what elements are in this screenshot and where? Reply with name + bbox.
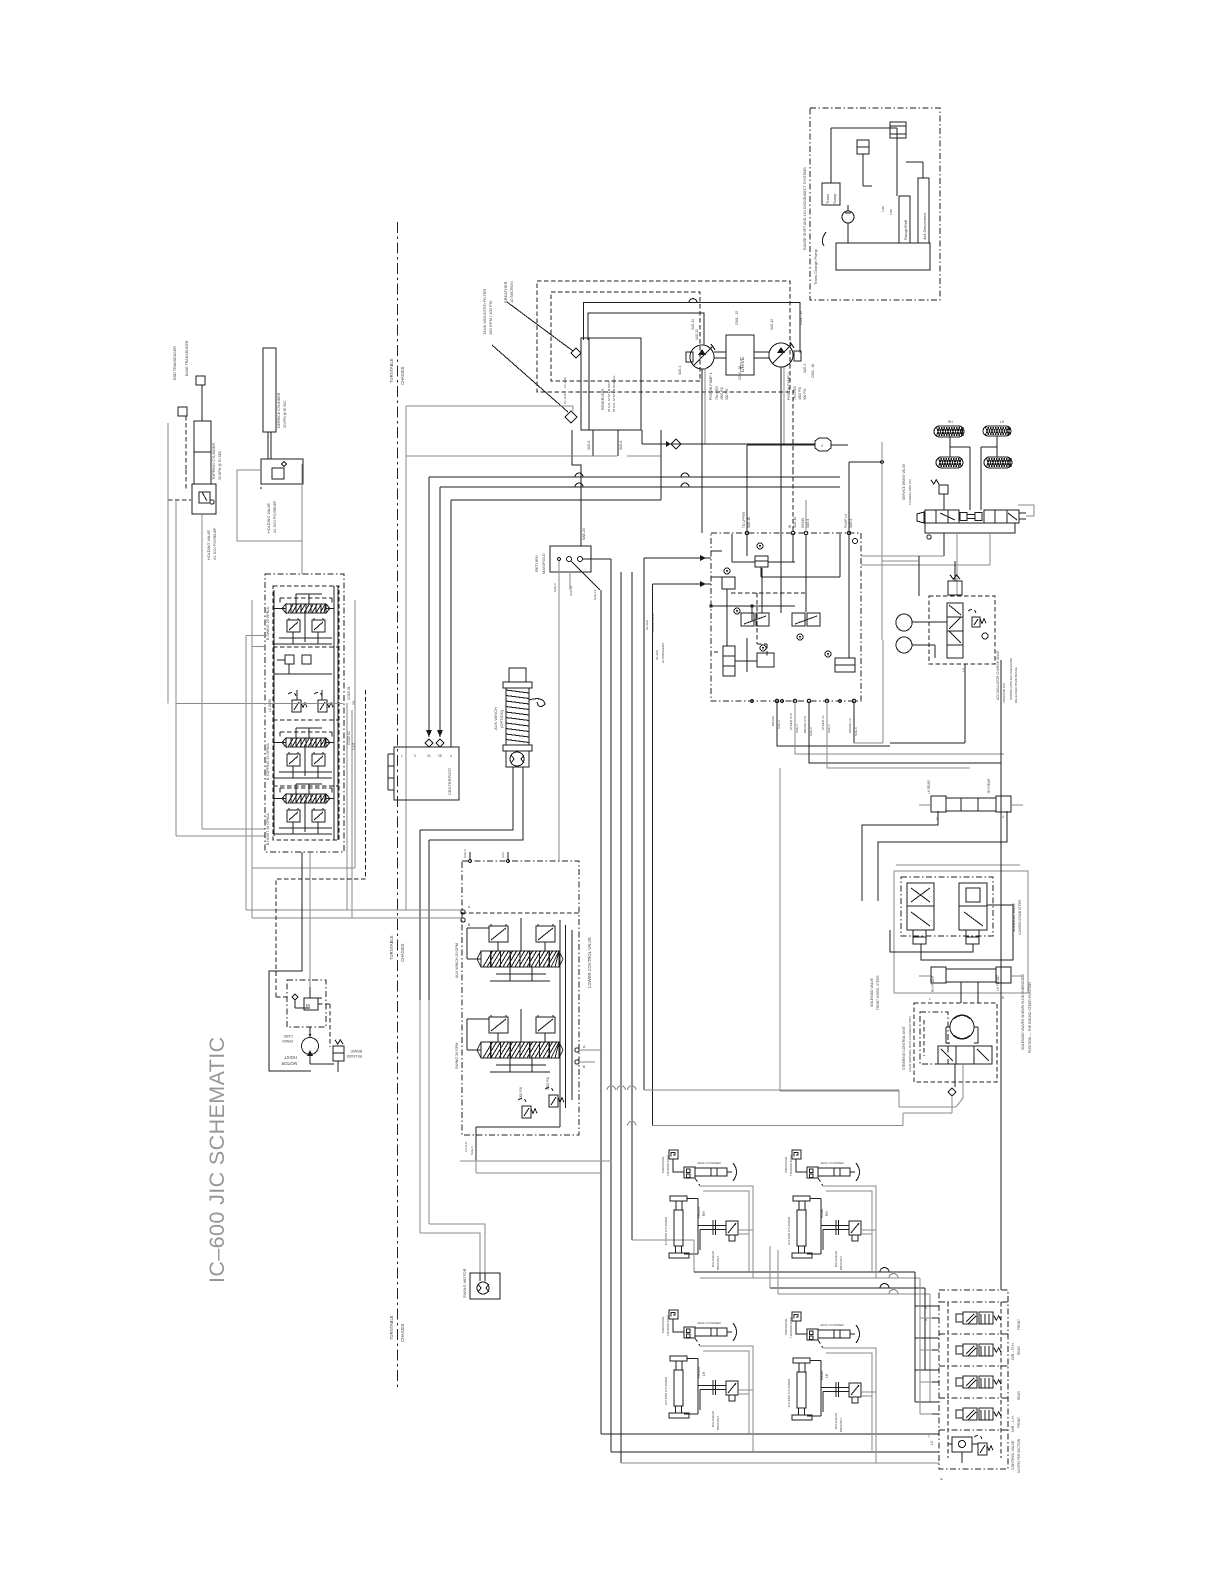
svg-text:4:1 3000 PSI RELIEF: 4:1 3000 PSI RELIEF (213, 528, 217, 560)
svg-text:RETURN: RETURN (534, 555, 539, 572)
svg-text:CHASSIS: CHASSIS (400, 1323, 405, 1342)
svg-text:91-2HS: 91-2HS (645, 620, 649, 630)
svg-text:FRONT WHEEL STEER: FRONT WHEEL STEER (876, 975, 880, 1010)
svg-text:BREATHER: BREATHER (503, 281, 508, 303)
svg-text:FRONT: FRONT (1017, 1319, 1021, 1330)
svg-text:RH: RH (825, 1211, 829, 1216)
svg-text:ROD TRANSDUCER: ROD TRANSDUCER (173, 346, 177, 380)
svg-text:28: 28 (438, 754, 442, 758)
svg-text:BRACKET: BRACKET (839, 1256, 843, 1270)
svg-text:EXTEND CYLINDER: EXTEND CYLINDER (664, 1376, 668, 1405)
svg-text:4500 PSI: 4500 PSI (720, 387, 724, 400)
svg-text:TRANSDUCER: TRANSDUCER (666, 1154, 670, 1176)
svg-text:B: B (925, 1318, 927, 1322)
svg-text:C061 - 32: C061 - 32 (735, 311, 739, 325)
svg-text:65 GAL SYSTEM MAX: 65 GAL SYSTEM MAX (607, 381, 611, 412)
svg-text:MOTOR: MOTOR (281, 1061, 297, 1066)
svg-text:AUX: AUX (501, 852, 505, 858)
svg-text:C062 - 16: C062 - 16 (738, 366, 742, 380)
svg-text:PRESSURE: PRESSURE (784, 1156, 788, 1173)
svg-text:JACK CYLINDER: JACK CYLINDER (820, 1161, 845, 1165)
svg-text:HOLDING VALVE: HOLDING VALVE (267, 503, 271, 533)
svg-text:STEER SYS: STEER SYS (789, 713, 793, 730)
svg-text:IC–600 JIC SCHEMATIC: IC–600 JIC SCHEMATIC (205, 1036, 229, 1283)
svg-text:75cc/REV: 75cc/REV (793, 385, 797, 400)
svg-text:1850/1250 PSI: 1850/1250 PSI (1002, 683, 1006, 703)
svg-text:LS: LS (930, 1440, 934, 1445)
svg-text:LH FRONT: LH FRONT (996, 975, 1000, 991)
svg-text:SAE-16: SAE-16 (793, 517, 797, 528)
svg-text:DRAIN: DRAIN (801, 517, 805, 528)
svg-text:SWING VALVE: SWING VALVE (651, 613, 655, 633)
svg-text:C1-2HS: C1-2HS (563, 377, 567, 388)
svg-text:O/R – R.H.: O/R – R.H. (1011, 1342, 1015, 1360)
svg-text:TOPPING CYLINDER: TOPPING CYLINDER (212, 442, 216, 480)
svg-text:BULKHEAD: BULKHEAD (834, 1412, 838, 1429)
svg-text:33 GPM @ 50 SEC: 33 GPM @ 50 SEC (218, 450, 222, 480)
svg-text:DERRICK CYLINDER: DERRICK CYLINDER (277, 392, 281, 428)
svg-text:BULKHEAD: BULKHEAD (711, 1250, 715, 1267)
svg-text:PRESSURE: PRESSURE (784, 1318, 788, 1335)
svg-text:PISTON PUMP 1: PISTON PUMP 1 (709, 372, 713, 400)
svg-text:SAE-12: SAE-12 (770, 319, 774, 330)
svg-text:PRESSURE: PRESSURE (661, 1316, 665, 1333)
svg-text:4500 PSI: 4500 PSI (798, 387, 802, 400)
svg-text:HOIST: HOIST (284, 1055, 297, 1060)
svg-text:3: 3 (414, 754, 416, 758)
svg-text:SERVICE BRAKE VALVE: SERVICE BRAKE VALVE (902, 464, 906, 500)
svg-text:91-2HS: 91-2HS (655, 650, 659, 660)
svg-text:24: 24 (427, 754, 431, 758)
svg-text:RH: RH (702, 1211, 706, 1216)
svg-text:SAE-6: SAE-6 (827, 724, 831, 733)
svg-text:(OPTION): (OPTION) (499, 709, 504, 728)
svg-text:T: T (928, 1435, 930, 1439)
svg-text:SAE-4: SAE-4 (795, 724, 799, 733)
svg-text:TURNTABLE: TURNTABLE (389, 358, 394, 383)
svg-text:1: 1 (401, 754, 403, 758)
svg-text:LS AUX: LS AUX (464, 1141, 468, 1152)
svg-text:BRAKE SYS: BRAKE SYS (803, 716, 807, 733)
svg-text:RH: RH (948, 420, 953, 424)
svg-text:A: A (925, 1306, 927, 1310)
svg-text:AUX WINCH 20 GPM: AUX WINCH 20 GPM (455, 943, 459, 978)
svg-text:LH: LH (702, 1371, 706, 1376)
svg-text:Sump: Sump (832, 193, 837, 204)
svg-text:CONTROL VALVE: CONTROL VALVE (1011, 1440, 1015, 1470)
svg-text:STEERING CONTROL UNIT: STEERING CONTROL UNIT (902, 1026, 906, 1070)
svg-text:SAE-12: SAE-12 (695, 329, 699, 340)
svg-text:SAE-6: SAE-6 (463, 849, 467, 858)
svg-text:OUTRIGGERS: OUTRIGGERS (661, 643, 665, 663)
svg-text:PUMP LS: PUMP LS (844, 514, 848, 528)
svg-text:TRANSDUCER: TRANSDUCER (789, 1154, 793, 1176)
svg-text:TANK MOUNTED FILTER: TANK MOUNTED FILTER (482, 289, 487, 335)
svg-text:TANDEM 1000 PSI: TANDEM 1000 PSI (908, 479, 912, 505)
svg-text:LH: LH (825, 1373, 829, 1378)
svg-text:RANGE SHIFT AND 4X4 DISCONNECT: RANGE SHIFT AND 4X4 DISCONNECT SYSTEMS (803, 167, 807, 250)
svg-text:LH REAR: LH REAR (927, 779, 931, 794)
svg-text:BRAKE: BRAKE (350, 1049, 362, 1053)
svg-text:10 MICRON: 10 MICRON (509, 281, 514, 303)
svg-text:PISTON PUMP 2: PISTON PUMP 2 (787, 372, 791, 400)
svg-text:POSITION — THE ROUND STEER POS: POSITION — THE ROUND STEER POSITION (1028, 981, 1032, 1053)
svg-text:LOWER CONTROL VALVE: LOWER CONTROL VALVE (587, 937, 592, 988)
svg-text:2½: 2½ (352, 700, 356, 705)
svg-text:REAR: REAR (1017, 1345, 1021, 1355)
svg-text:Low: Low (889, 208, 893, 215)
svg-text:Trans: Trans (825, 194, 830, 204)
svg-text:TRANSDUCER: TRANSDUCER (789, 1316, 793, 1338)
svg-text:SAE-6: SAE-6 (849, 519, 853, 528)
svg-text:SAE-24: SAE-24 (582, 528, 586, 540)
svg-text:LS SAE6: LS SAE6 (268, 699, 272, 712)
svg-text:BRACKET: BRACKET (716, 1256, 720, 1270)
svg-text:3000 PSI: 3000 PSI (546, 1077, 550, 1090)
svg-text:300 PSI: 300 PSI (803, 389, 807, 400)
svg-text:20 GPM @ 50 SEC: 20 GPM @ 50 SEC (283, 400, 287, 428)
svg-text:L: L (929, 997, 931, 1001)
svg-text:ACCUMULATOR CHARGE VALVE: ACCUMULATOR CHARGE VALVE (996, 650, 1000, 700)
svg-text:BULKHEAD: BULKHEAD (834, 1250, 838, 1267)
svg-text:BULKHEAD: BULKHEAD (711, 1410, 715, 1427)
svg-text:75cc/REV: 75cc/REV (715, 385, 719, 400)
svg-text:SAE-6: SAE-6 (806, 519, 810, 528)
svg-text:4: 4 (450, 754, 452, 758)
svg-text:RH FRONT: RH FRONT (931, 975, 935, 992)
svg-text:JACK CYLINDER: JACK CYLINDER (820, 1323, 845, 1327)
svg-text:Low: Low (881, 205, 885, 212)
svg-text:SAE-6: SAE-6 (777, 720, 781, 729)
svg-text:TRANSDUCER: TRANSDUCER (666, 1314, 670, 1336)
svg-text:TURNTABLE: TURNTABLE (389, 935, 394, 960)
svg-text:JACK CYLINDER: JACK CYLINDER (697, 1161, 722, 1165)
svg-text:55 GAL SYSTEM NORMAL: 55 GAL SYSTEM NORMAL (612, 375, 616, 412)
svg-text:B TOPPING 33 GPM A: B TOPPING 33 GPM A (266, 743, 270, 780)
svg-text:SAE-6: SAE-6 (619, 441, 623, 450)
svg-text:BRAKE LS: BRAKE LS (848, 718, 852, 733)
svg-text:C062 - 16: C062 - 16 (811, 364, 815, 378)
svg-text:SAE-6: SAE-6 (470, 1146, 474, 1155)
svg-text:CODE 62: CODE 62 (347, 731, 351, 745)
svg-text:SAE-4: SAE-4 (678, 366, 682, 375)
svg-text:REAR: REAR (1017, 1390, 1021, 1400)
svg-text:TO UPPER: TO UPPER (742, 511, 746, 528)
svg-text:Trans Charge Pump: Trans Charge Pump (813, 248, 818, 285)
svg-text:BRAKE: BRAKE (771, 716, 775, 726)
svg-text:SAE-6: SAE-6 (854, 727, 858, 736)
svg-text:LH: LH (1000, 420, 1005, 424)
svg-text:BRACKET: BRACKET (716, 1416, 720, 1430)
svg-text:CASE: CASE (283, 1034, 293, 1038)
svg-text:RH REAR: RH REAR (987, 778, 991, 793)
svg-text:SAE-16: SAE-16 (747, 517, 751, 528)
svg-text:B SWING 20 GPM A: B SWING 20 GPM A (266, 606, 270, 640)
svg-text:AUX WINCH: AUX WINCH (493, 707, 498, 730)
svg-text:JACK CYLINDER: JACK CYLINDER (697, 1321, 722, 1325)
svg-text:O/R – L.H.: O/R – L.H. (1011, 1415, 1015, 1432)
svg-text:CHASSIS: CHASSIS (400, 366, 405, 385)
svg-text:300 PSI: 300 PSI (725, 389, 729, 400)
svg-text:DRAIN: DRAIN (282, 1039, 293, 1043)
svg-text:C1-3HS: C1-3HS (563, 393, 567, 404)
svg-text:150 GPM / 100 PSI: 150 GPM / 100 PSI (488, 301, 493, 335)
svg-text:RangeShift: RangeShift (903, 219, 908, 240)
svg-text:MANIFOLD: MANIFOLD (541, 553, 546, 574)
svg-text:SAE-6: SAE-6 (553, 583, 557, 592)
svg-text:10 GPM PER SECTION: 10 GPM PER SECTION (1017, 1438, 1021, 1473)
svg-text:SAE-6: SAE-6 (809, 727, 813, 736)
svg-text:RESERVOIR: RESERVOIR (601, 388, 605, 410)
svg-text:4x4 Disconnect: 4x4 Disconnect (922, 212, 927, 240)
svg-text:SPRING APPLIED PRESSURE: SPRING APPLIED PRESSURE (1009, 658, 1013, 700)
svg-text:RELEASE: RELEASE (346, 1054, 362, 1058)
svg-text:4-WHEEL/CRAB STEER: 4-WHEEL/CRAB STEER (1018, 899, 1022, 935)
svg-text:BASE TRANSDUCER: BASE TRANSDUCER (185, 340, 189, 376)
svg-text:EXTEND CYLINDER: EXTEND CYLINDER (787, 1378, 791, 1407)
svg-text:CODE 61: CODE 61 (347, 686, 351, 700)
svg-text:EXTEND CYLINDER: EXTEND CYLINDER (787, 1216, 791, 1245)
svg-text:4: 4 (1002, 815, 1004, 819)
svg-text:CENTERPOST: CENTERPOST (447, 767, 452, 795)
svg-text:3000 PSI: 3000 PSI (519, 1087, 523, 1100)
svg-text:BRACKET: BRACKET (839, 1418, 843, 1432)
svg-text:EXTEND CYLINDER: EXTEND CYLINDER (664, 1216, 668, 1245)
svg-text:M: M (306, 1003, 310, 1008)
svg-text:FRONT: FRONT (1017, 1417, 1021, 1428)
svg-text:RELEASED PARK BRAKE: RELEASED PARK BRAKE (1014, 667, 1018, 703)
svg-text:SAE-4: SAE-4 (803, 364, 807, 373)
svg-text:1-1/2: 1-1/2 (352, 743, 356, 750)
svg-text:LOAD SENSING, NON-LOADREACTION: LOAD SENSING, NON-LOADREACTION (908, 1016, 912, 1072)
svg-text:STEER LS: STEER LS (821, 715, 825, 730)
svg-text:SAE-6: SAE-6 (587, 441, 591, 450)
svg-text:SAE-12: SAE-12 (593, 589, 597, 600)
svg-text:HOLDING VALVE: HOLDING VALVE (207, 530, 211, 560)
svg-text:PRESSURE: PRESSURE (661, 1156, 665, 1173)
svg-text:SAE-12: SAE-12 (691, 319, 695, 330)
svg-text:CHASSIS: CHASSIS (400, 943, 405, 962)
svg-text:SWING MOTOR: SWING MOTOR (462, 1268, 467, 1298)
svg-text:SOLENOID VALVE: SOLENOID VALVE (870, 977, 874, 1007)
svg-text:SOLENOID VALVES SHOWN IN DE-EN: SOLENOID VALVES SHOWN IN DE-ENERGIZED (1021, 973, 1025, 1050)
svg-text:SWING 30 GPM: SWING 30 GPM (455, 1043, 459, 1069)
svg-text:4:1 3000 PSI RELIEF: 4:1 3000 PSI RELIEF (273, 501, 277, 533)
svg-text:TURNTABLE: TURNTABLE (389, 1315, 394, 1340)
svg-text:LS: LS (962, 667, 966, 672)
svg-text:B HOIST 40 GPM A: B HOIST 40 GPM A (266, 813, 270, 845)
